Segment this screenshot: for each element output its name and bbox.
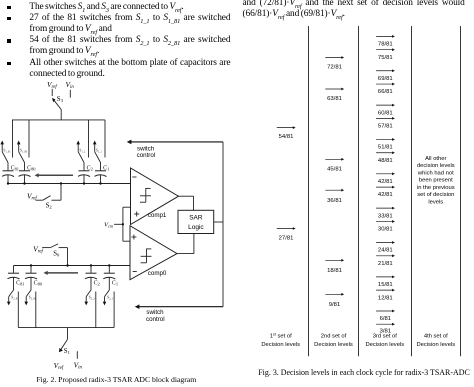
svg-text:C2: C2 — [94, 281, 100, 287]
svg-text:45/81: 45/81 — [327, 167, 342, 173]
svg-text:12/81: 12/81 — [378, 295, 393, 301]
svg-text:Fig. 2. Proposed radix-3 TSAR: Fig. 2. Proposed radix-3 TSAR ADC block … — [36, 375, 196, 384]
svg-text:Vref: Vref — [54, 361, 64, 371]
svg-text:control: control — [146, 316, 165, 323]
svg-text:63/81: 63/81 — [327, 96, 342, 102]
svg-text:S3: S3 — [57, 96, 64, 103]
svg-text:9/81: 9/81 — [329, 302, 340, 308]
svg-text:Vin: Vin — [74, 361, 83, 371]
svg-text:S1_80: S1_80 — [20, 149, 28, 154]
svg-text:Logic: Logic — [188, 224, 204, 231]
svg-text:Vin: Vin — [66, 80, 75, 90]
svg-text:control: control — [137, 152, 156, 159]
svg-text:66/81: 66/81 — [378, 89, 393, 95]
svg-text:been present: been present — [419, 178, 453, 184]
svg-text:15/81: 15/81 — [378, 282, 393, 288]
svg-text:1st set of: 1st set of — [270, 333, 292, 340]
svg-text:51/81: 51/81 — [378, 145, 393, 151]
svg-text:24/81: 24/81 — [378, 248, 393, 254]
svg-text:set of decision: set of decision — [417, 192, 454, 198]
svg-text:18/81: 18/81 — [327, 268, 342, 274]
svg-text:75/81: 75/81 — [378, 55, 393, 61]
svg-text:Fig. 3. Decision levels in eac: Fig. 3. Decision levels in each clock cy… — [258, 368, 469, 377]
svg-text:Decision levels: Decision levels — [365, 342, 404, 348]
svg-text:48/81: 48/81 — [378, 158, 393, 164]
svg-text:42/81: 42/81 — [378, 179, 393, 185]
svg-text:S1_2: S1_2 — [79, 149, 86, 154]
svg-text:switch: switch — [146, 309, 164, 316]
svg-text:C80: C80 — [34, 281, 43, 287]
svg-text:Vref: Vref — [33, 244, 43, 254]
svg-text:SAR: SAR — [189, 215, 203, 222]
svg-text:72/81: 72/81 — [327, 65, 342, 71]
svg-text:Vcm: Vcm — [104, 222, 113, 229]
svg-text:levels: levels — [428, 199, 443, 205]
svg-text:C81: C81 — [16, 281, 24, 287]
svg-text:78/81: 78/81 — [378, 42, 393, 48]
svg-text:69/81: 69/81 — [378, 76, 393, 82]
svg-text:Decision levels: Decision levels — [416, 342, 455, 348]
svg-text:C81: C81 — [11, 165, 19, 171]
svg-text:6/81: 6/81 — [380, 316, 391, 322]
svg-text:57/81: 57/81 — [378, 124, 393, 130]
svg-text:in the previous: in the previous — [417, 185, 455, 191]
svg-text:21/81: 21/81 — [378, 261, 393, 267]
svg-text:54/81: 54/81 — [279, 134, 294, 140]
svg-text:33/81: 33/81 — [378, 213, 393, 219]
svg-text:C80: C80 — [27, 165, 36, 171]
svg-text:decision levels: decision levels — [417, 163, 455, 169]
svg-text:which had not: which had not — [417, 170, 454, 176]
svg-text:S1_81: S1_81 — [3, 149, 11, 154]
svg-text:4th set of: 4th set of — [424, 334, 448, 340]
svg-text:C1: C1 — [112, 281, 118, 287]
svg-text:S1_1: S1_1 — [96, 149, 103, 154]
svg-text:All other: All other — [425, 156, 446, 162]
svg-text:Decision levels: Decision levels — [261, 342, 300, 348]
svg-text:27/81: 27/81 — [279, 235, 294, 241]
svg-text:C2: C2 — [87, 165, 93, 171]
svg-text:42/81: 42/81 — [378, 192, 393, 198]
svg-text:S1: S1 — [64, 348, 71, 355]
svg-text:comp1: comp1 — [148, 212, 167, 219]
svg-text:36/81: 36/81 — [327, 198, 342, 204]
svg-text:S2: S2 — [46, 202, 53, 209]
svg-text:S2_2: S2_2 — [89, 296, 96, 301]
svg-text:3rd set of: 3rd set of — [373, 334, 398, 340]
svg-text:C1: C1 — [103, 165, 109, 171]
svg-text:30/81: 30/81 — [378, 227, 393, 233]
svg-text:S0: S0 — [53, 250, 60, 257]
svg-text:2nd set of: 2nd set of — [321, 334, 347, 340]
svg-text:S2_1: S2_1 — [107, 296, 114, 301]
svg-text:Decision levels: Decision levels — [314, 342, 353, 348]
svg-text:comp0: comp0 — [148, 270, 167, 277]
svg-text:60/81: 60/81 — [378, 110, 393, 116]
